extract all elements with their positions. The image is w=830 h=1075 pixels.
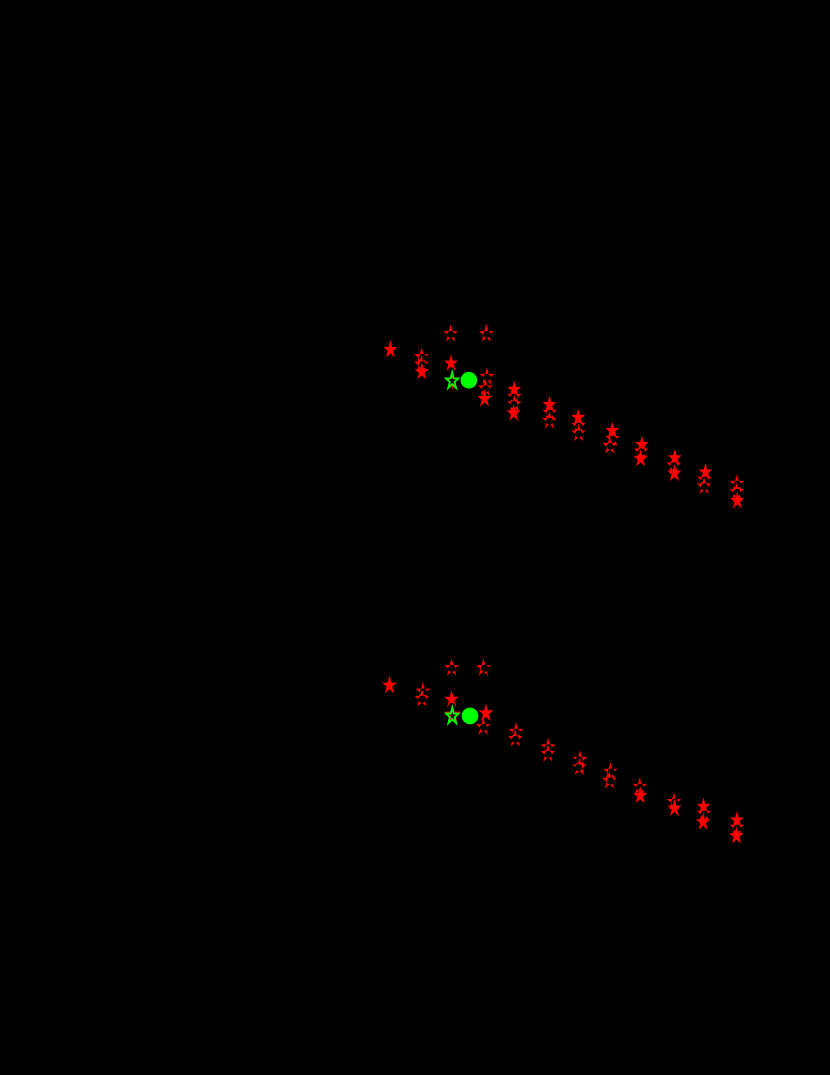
star B2a occluded [417,684,429,698]
star T14b occluded [731,485,743,499]
star T10a [607,423,618,436]
star B8a occluded [542,740,554,754]
star B12b [669,801,681,815]
star B6b occluded [477,720,489,734]
star T10c occluded [604,438,616,452]
star B10a occluded [605,764,617,778]
bottom panel scatter [384,661,743,843]
star B7a occluded [510,724,522,738]
green circle G4 [462,708,479,725]
star T5 occluded under green [446,373,458,387]
star B6a [480,705,492,719]
star T7c occluded [509,397,521,411]
star B13a [698,799,709,812]
star B4 [446,692,458,706]
star T3a occluded [445,326,457,340]
star B12a occluded [668,794,680,808]
star T2a occluded [416,350,428,364]
star B14a [731,813,742,826]
star T4 [445,356,456,369]
star T7b occluded [509,389,521,403]
star T14c [731,493,743,507]
green circle G2 [461,372,478,389]
star T6b occluded [479,381,491,395]
star T13c occluded [698,479,710,493]
star T6a occluded [481,369,493,383]
star B3b occluded [478,661,490,675]
star T11a [636,437,647,450]
green star G3 [446,708,459,724]
star B2b occluded [416,691,428,705]
star B7b occluded [509,731,521,745]
star T12a [669,451,680,464]
star T11b occluded [635,444,647,458]
star B1 [384,678,396,692]
top panel scatter [385,326,743,507]
star B13b occluded [698,806,710,820]
star T7d [508,406,520,420]
star B9a occluded [574,752,586,766]
star T7a [508,382,519,395]
star T9b occluded [573,418,585,432]
star T13a [700,465,711,478]
star T8a [544,397,555,410]
star T11c [635,451,647,465]
star T9a [572,410,583,423]
star T8c occluded [544,413,556,427]
star B10b occluded [604,773,616,787]
star B5 occluded under green [446,706,459,721]
star T12c [669,466,681,480]
star B13c [697,815,709,829]
star B3a occluded [446,661,458,675]
star B8b occluded [542,746,554,760]
star T2c [416,364,428,378]
star B14b occluded [731,820,743,834]
star T3b occluded [480,326,492,340]
star T2b occluded [416,357,428,371]
star T14a occluded [731,476,743,490]
star T6c [479,391,491,405]
star T9c occluded [573,426,585,440]
star T12b occluded [668,458,680,472]
star T13b occluded [699,472,711,486]
star B9b occluded [574,760,586,774]
star B14c [731,828,743,842]
star B11a occluded [634,779,646,793]
green star G1 [446,372,459,388]
star T1 [385,342,396,356]
star T8b occluded [544,405,556,419]
star B11b [634,788,646,802]
star T10b occluded [607,431,619,445]
